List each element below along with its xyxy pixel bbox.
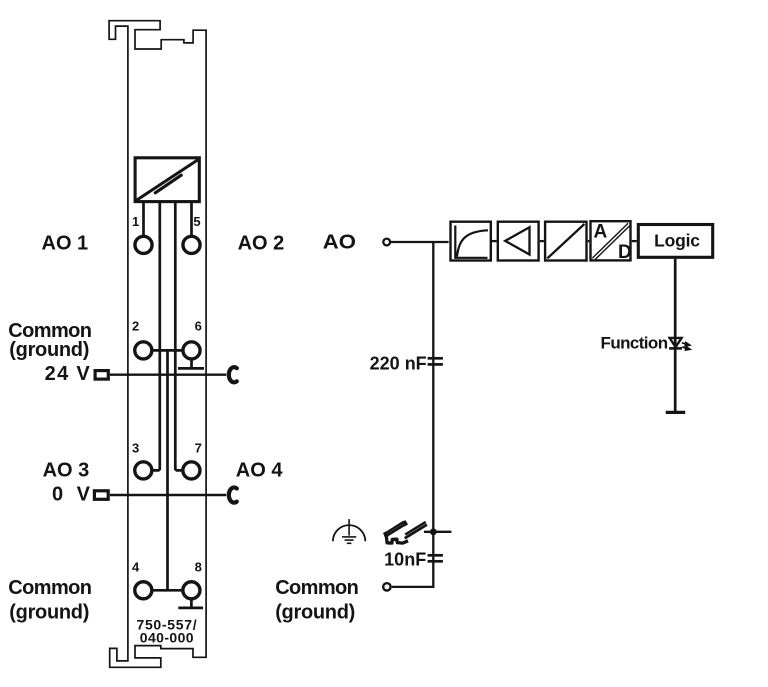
svg-text:2: 2	[132, 319, 139, 334]
svg-text:Common: Common	[275, 577, 358, 599]
svg-text:AO 2: AO 2	[238, 233, 285, 255]
svg-text:0 V: 0 V	[52, 484, 94, 506]
svg-text:AO 3: AO 3	[43, 459, 90, 481]
svg-text:220 nF: 220 nF	[370, 353, 427, 373]
svg-text:(ground): (ground)	[275, 601, 355, 623]
svg-text:(ground): (ground)	[9, 339, 89, 361]
svg-text:Function: Function	[601, 334, 668, 353]
svg-text:10nF: 10nF	[384, 549, 426, 569]
svg-text:3: 3	[132, 440, 139, 455]
svg-text:D: D	[618, 242, 632, 263]
svg-text:(ground): (ground)	[9, 601, 89, 623]
svg-text:040-000: 040-000	[140, 630, 194, 646]
svg-text:6: 6	[195, 319, 202, 334]
svg-text:AO: AO	[323, 232, 356, 254]
svg-text:AO 4: AO 4	[236, 459, 284, 481]
svg-text:AO 1: AO 1	[42, 233, 89, 255]
svg-text:Common: Common	[8, 577, 91, 599]
svg-text:24 V: 24 V	[45, 363, 91, 385]
svg-text:4: 4	[132, 560, 140, 575]
svg-text:7: 7	[195, 440, 202, 455]
svg-text:A: A	[594, 222, 608, 243]
svg-text:5: 5	[193, 214, 200, 229]
svg-text:Logic: Logic	[654, 231, 700, 251]
svg-text:1: 1	[132, 214, 139, 229]
svg-text:8: 8	[195, 560, 202, 575]
